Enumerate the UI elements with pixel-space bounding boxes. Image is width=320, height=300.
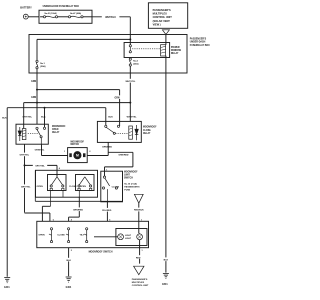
svg-text:RED/BLK: RED/BLK (134, 210, 144, 212)
svg-text:MULTIPLEX: MULTIPLEX (153, 12, 168, 16)
svg-text:No.16 (7.5A): No.16 (7.5A) (124, 183, 137, 186)
svg-text:RELAY: RELAY (171, 52, 179, 55)
svg-text:WHT/YEL: WHT/YEL (125, 81, 136, 83)
svg-text:GRY/YEL: GRY/YEL (22, 116, 32, 118)
svg-text:BLK: BLK (164, 260, 169, 262)
svg-text:SWITCH: SWITCH (124, 177, 133, 179)
svg-text:MOTOR: MOTOR (71, 144, 80, 146)
svg-text:CLOSE: CLOSE (143, 130, 151, 132)
svg-text:No.41 (100A): No.41 (100A) (44, 12, 56, 15)
svg-text:GRY/YEL: GRY/YEL (21, 187, 31, 189)
svg-text:PASSENGER'S: PASSENGER'S (124, 186, 140, 189)
svg-text:G401: G401 (4, 286, 10, 289)
svg-text:CLOSE: CLOSE (69, 186, 77, 188)
svg-text:BLK: BLK (66, 260, 71, 262)
svg-text:LIGHT: LIGHT (125, 235, 132, 237)
svg-text:BATTERY: BATTERY (20, 7, 32, 10)
svg-text:LIGHT: LIGHT (125, 238, 132, 240)
svg-text:CLOSE: CLOSE (57, 235, 65, 237)
svg-text:GRN/RED: GRN/RED (73, 210, 84, 212)
svg-text:CLOSE: CLOSE (112, 186, 120, 188)
svg-text:1: 1 (64, 151, 65, 153)
svg-text:CONTROL UNIT: CONTROL UNIT (153, 15, 173, 19)
svg-text:M: M (76, 154, 79, 158)
svg-text:VIEW ): VIEW ) (153, 22, 161, 26)
svg-text:FUSE: FUSE (124, 190, 130, 192)
svg-text:WINDOW: WINDOW (171, 50, 182, 52)
svg-text:MOONROOF: MOONROOF (143, 127, 157, 129)
svg-text:MOONROOF SWITCH: MOONROOF SWITCH (89, 251, 113, 253)
svg-text:OPEN: OPEN (38, 235, 45, 237)
svg-text:GRN/RED: GRN/RED (102, 147, 113, 149)
svg-text:1: 1 (142, 250, 143, 252)
svg-text:2: 2 (71, 250, 72, 252)
svg-text:5: 5 (109, 220, 110, 222)
svg-text:BLK: BLK (108, 116, 113, 118)
svg-text:G404: G404 (66, 286, 72, 289)
svg-text:1: 1 (141, 220, 142, 222)
svg-text:PASSENGER'S: PASSENGER'S (153, 8, 171, 12)
svg-text:OPEN: OPEN (80, 186, 87, 188)
svg-text:(20A): (20A) (133, 63, 139, 66)
svg-text:UNDER-HOOD FUSE/RELAY BOX: UNDER-HOOD FUSE/RELAY BOX (43, 5, 80, 8)
svg-text:RELAY: RELAY (143, 132, 151, 135)
svg-text:(50A): (50A) (40, 65, 46, 68)
svg-text:RELAY: RELAY (52, 131, 60, 134)
svg-text:OPEN: OPEN (37, 186, 44, 188)
svg-text:WHT/BLU: WHT/BLU (105, 17, 116, 19)
svg-text:BLK: BLK (41, 116, 46, 118)
svg-text:OPEN: OPEN (52, 129, 59, 131)
svg-text:FUSE/RELAY BOX: FUSE/RELAY BOX (190, 44, 210, 47)
svg-text:MULTIPLEX: MULTIPLEX (132, 282, 145, 284)
svg-text:GRY/YEL: GRY/YEL (20, 155, 30, 157)
svg-text:6: 6 (53, 220, 54, 222)
svg-text:MOONROOF: MOONROOF (52, 126, 66, 128)
svg-text:POWER: POWER (171, 47, 180, 49)
svg-text:PASSENGER'S: PASSENGER'S (190, 38, 207, 41)
svg-text:WHT/YEL: WHT/YEL (127, 116, 138, 118)
svg-text:No.47 (40A): No.47 (40A) (70, 12, 81, 15)
svg-text:G501: G501 (162, 284, 168, 286)
svg-text:LIMIT: LIMIT (124, 174, 130, 176)
svg-text:UNDER-DASH: UNDER-DASH (190, 41, 206, 44)
svg-text:1: 1 (106, 170, 107, 172)
svg-text:GRN: GRN (31, 97, 36, 99)
svg-text:CONTROL UNIT: CONTROL UNIT (132, 285, 149, 287)
svg-text:2: 2 (89, 151, 90, 153)
svg-text:GRN/RED: GRN/RED (118, 155, 129, 157)
svg-text:TILT: TILT (80, 235, 85, 237)
svg-text:YEL/RED: YEL/RED (102, 210, 112, 212)
svg-text:MOONROOF: MOONROOF (71, 141, 85, 143)
svg-text:PASSENGER'S: PASSENGER'S (132, 278, 148, 281)
svg-text:RED: RED (136, 257, 141, 259)
svg-text:GRN/YEL: GRN/YEL (35, 149, 45, 151)
svg-text:MOONROOF: MOONROOF (124, 171, 138, 173)
svg-text:GRN: GRN (31, 81, 36, 83)
svg-text:GRY/YEL: GRY/YEL (35, 166, 45, 168)
svg-text:BLK: BLK (2, 117, 7, 119)
svg-text:GRN: GRN (114, 98, 119, 100)
svg-text:(SOLAR VENT: (SOLAR VENT (153, 19, 171, 23)
